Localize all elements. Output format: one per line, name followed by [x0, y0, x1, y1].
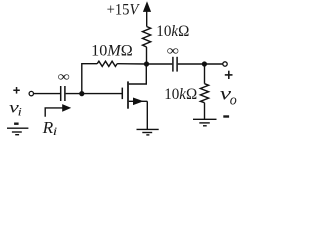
R_i arrow [45, 104, 71, 117]
10M resistor branch: left riser [82, 64, 97, 94]
+ output polarity [225, 71, 233, 79]
node output junction [202, 61, 207, 66]
MOSFET Q1 channel bar [127, 81, 129, 108]
input terminal circle [29, 91, 33, 95]
wire top rail (drain node to output cap) [147, 63, 173, 65]
wire output node to terminal [204, 63, 222, 65]
wire RL bottom to ground [204, 103, 206, 120]
svg-text:o: o [230, 93, 237, 109]
svg-text:i: i [18, 105, 22, 119]
minus output polarity [223, 115, 229, 117]
MOSFET Q1 drain lead [129, 64, 147, 84]
svg-text:+15V: +15V [107, 2, 141, 19]
MOSFET Q1 source lead with arrow [129, 98, 148, 130]
node input junction [79, 91, 84, 96]
+ input polarity [13, 87, 19, 94]
capacitor C2 plates [173, 57, 177, 72]
resistor RD 10k (vertical zigzag) [143, 27, 151, 48]
svg-text:10MΩ: 10MΩ [91, 43, 133, 60]
MOSFET Q1 gate bar [121, 88, 123, 100]
output terminal circle [223, 62, 227, 66]
wire C1 to gate [66, 93, 123, 95]
svg-text:∞: ∞ [167, 44, 179, 59]
resistor 10M (horizontal zigzag) [97, 61, 117, 66]
svg-text:i: i [53, 124, 58, 138]
+15V supply arrow [143, 1, 151, 26]
svg-text:10kΩ: 10kΩ [164, 86, 197, 103]
ground MOSFET source [137, 129, 159, 135]
ground input [7, 128, 28, 135]
wire C2 to output node [178, 63, 205, 65]
wire output node down to RL [204, 64, 206, 84]
node drain junction [144, 61, 149, 66]
wire input terminal to C1 [34, 93, 60, 95]
wire 10M right end to drain node [117, 63, 146, 65]
wire RD bottom to drain node [146, 47, 148, 64]
minus input polarity [14, 123, 19, 125]
capacitor C1 plates [61, 86, 65, 101]
resistor RL 10k (vertical zigzag) [200, 84, 208, 103]
ground RL [193, 119, 217, 126]
svg-text:∞: ∞ [58, 70, 70, 85]
svg-text:10kΩ: 10kΩ [156, 23, 189, 40]
